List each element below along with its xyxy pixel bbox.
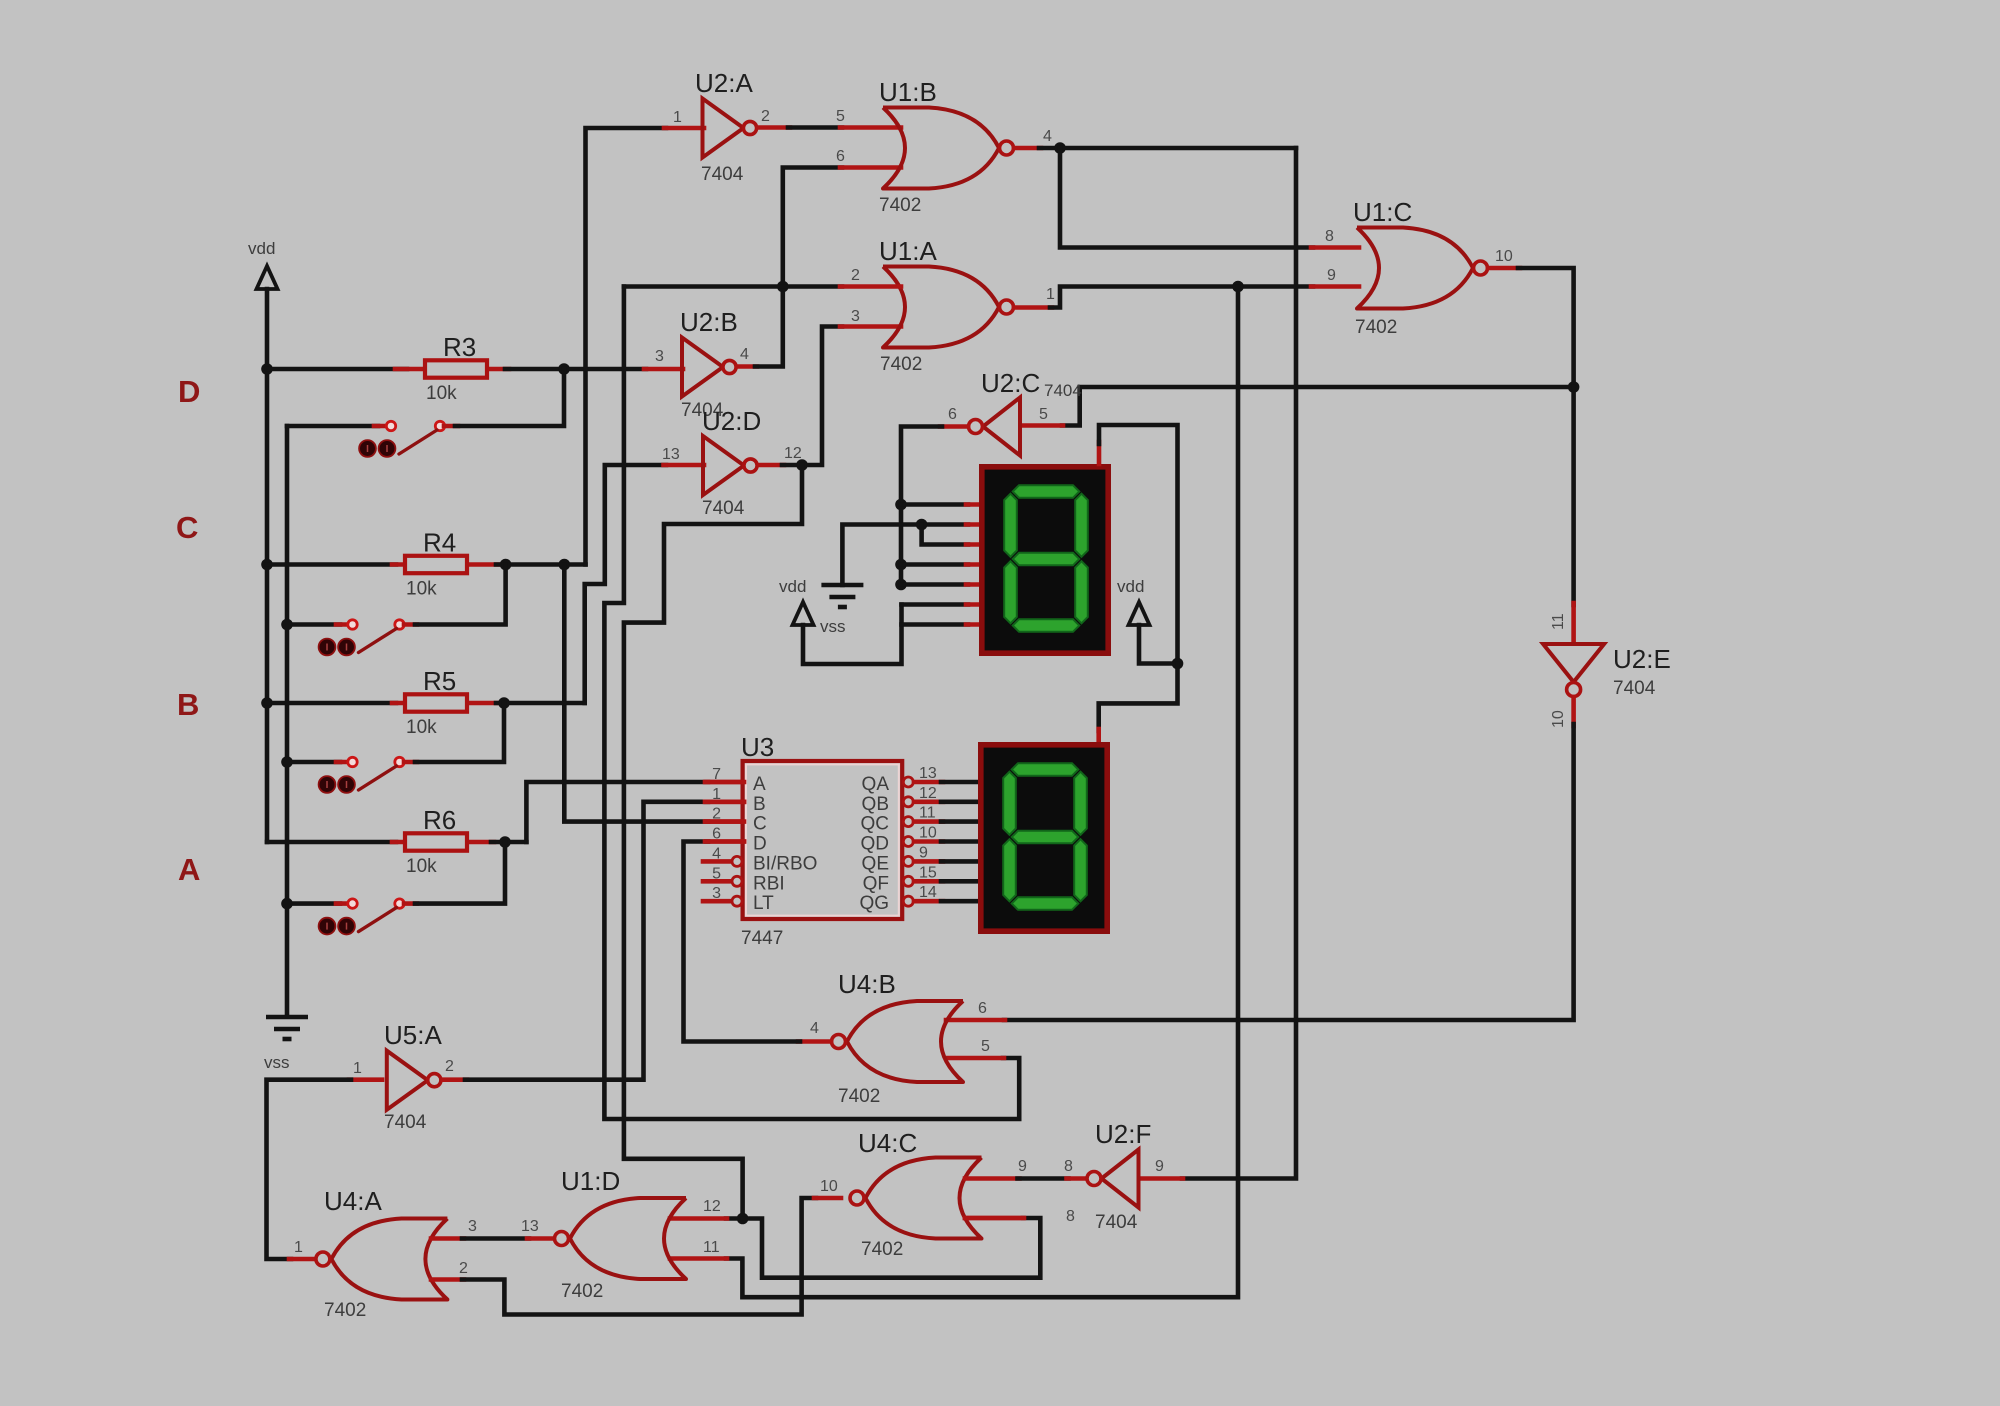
- wire R6 to corner: [491, 840, 526, 845]
- node vdd-B junction: [261, 697, 273, 709]
- wire QC to DS2: [914, 819, 943, 824]
- svg-text:12: 12: [784, 445, 802, 462]
- svg-text:U3: U3: [741, 732, 774, 762]
- svg-text:QB: QB: [862, 794, 889, 815]
- wire R4 to junctions: [496, 562, 586, 567]
- svg-text:8: 8: [1064, 1158, 1073, 1175]
- resistor R4: [392, 562, 405, 567]
- node R6 switch junction: [499, 836, 511, 848]
- svg-text:10: 10: [820, 1178, 838, 1195]
- wire R5 to corner: [496, 701, 585, 706]
- wire U1:C out down to U2:E: [1571, 387, 1576, 605]
- svg-text:U2:F: U2:F: [1095, 1119, 1151, 1149]
- svg-text:5: 5: [1039, 406, 1048, 423]
- svg-text:8: 8: [1066, 1208, 1075, 1225]
- svg-text:U4:A: U4:A: [324, 1186, 382, 1216]
- wire U1:B out right bus: [1060, 146, 1296, 151]
- svg-text:RBI: RBI: [753, 873, 785, 894]
- stub U4:C pin 8: [965, 1216, 1023, 1221]
- node rail-SWC: [281, 619, 293, 631]
- wire U2:B out up to U1:B pin 6: [737, 364, 757, 369]
- wire U2:A out to U1:B pin 5: [758, 125, 790, 130]
- wire U1:B out to U1:C pin 8: [1060, 148, 1313, 248]
- inverter U2:A: [703, 99, 744, 158]
- svg-text:U2:A: U2:A: [695, 68, 753, 98]
- svg-text:QG: QG: [859, 893, 889, 914]
- svg-text:QA: QA: [862, 774, 890, 795]
- wire seg-f row: [902, 602, 969, 607]
- svg-text:7404: 7404: [1613, 678, 1656, 699]
- wire QG to DS2: [914, 899, 943, 904]
- svg-text:13: 13: [662, 446, 680, 463]
- switch SW-B: [287, 760, 340, 765]
- wire switch B up to R5: [415, 703, 504, 762]
- pin 10 QD of U3: [903, 837, 913, 847]
- node U2:D output junction: [796, 459, 808, 471]
- wire vdd to R5: [267, 701, 396, 706]
- svg-text:B: B: [177, 687, 199, 722]
- svg-text:2: 2: [851, 267, 860, 284]
- wire U1:B out down to U2:F pin 9: [1182, 148, 1296, 1179]
- wire U1:A out down to U1:D pin 11: [726, 287, 1238, 1298]
- svg-text:15: 15: [919, 864, 937, 881]
- node U1:A out junction: [1232, 281, 1244, 293]
- pin 6 D of U3: [706, 839, 744, 844]
- wire switch C up to R4: [415, 565, 506, 625]
- wire switch A up to R6: [415, 842, 505, 904]
- pin 4 BI/RBO of U3: [703, 859, 732, 864]
- node R4 column junction: [559, 559, 571, 571]
- svg-text:QD: QD: [861, 834, 890, 855]
- wire U2:D out down-bus to U1:D pin 12: [624, 465, 802, 1219]
- wire U4:C pin 9 to U2:F out: [965, 1176, 1020, 1181]
- svg-text:4: 4: [810, 1020, 819, 1037]
- svg-text:11: 11: [1550, 613, 1567, 630]
- svg-text:12: 12: [703, 1198, 721, 1215]
- svg-text:5: 5: [836, 108, 845, 125]
- pin 5 RBI of U3: [703, 879, 732, 884]
- svg-text:vdd: vdd: [1117, 577, 1144, 596]
- wire seg-a row: [901, 502, 968, 507]
- svg-text:2: 2: [445, 1058, 454, 1075]
- wire U1:C out to U2:C pin 5: [1062, 387, 1574, 426]
- 7-segment display DS1: [982, 467, 1108, 653]
- node U1:D pin12 junction: [737, 1213, 749, 1225]
- svg-text:A: A: [753, 774, 766, 795]
- svg-text:U1:C: U1:C: [1353, 197, 1412, 227]
- svg-text:10: 10: [1550, 710, 1567, 728]
- svg-text:BI/RBO: BI/RBO: [753, 853, 817, 874]
- wire C bit up to U2:A input: [586, 128, 667, 565]
- pin 12 QB of U3: [903, 797, 913, 807]
- svg-text:2: 2: [459, 1260, 468, 1277]
- wire D row to U2:B pin 3: [564, 367, 646, 372]
- pin 11 QC of U3: [903, 817, 913, 827]
- nor gate U1:A: [883, 267, 999, 348]
- wire QD to DS2: [914, 839, 943, 844]
- svg-text:3: 3: [851, 308, 860, 325]
- svg-text:8: 8: [1325, 228, 1334, 245]
- svg-text:2: 2: [761, 108, 770, 125]
- wire vdd to R4: [267, 562, 396, 567]
- wire U4:A pin 2 to U4:C out: [431, 1277, 464, 1282]
- svg-text:D: D: [178, 374, 200, 409]
- node vdd-C junction: [261, 559, 273, 571]
- svg-text:12: 12: [919, 785, 937, 802]
- node U1:C out junction: [1568, 381, 1580, 393]
- pin 7 A of U3: [706, 780, 744, 785]
- switch SW-D: [287, 424, 378, 429]
- svg-text:QE: QE: [862, 853, 889, 874]
- pin 9 QE of U3: [903, 856, 913, 866]
- wire U2:C out to display rows A D E: [940, 424, 968, 429]
- svg-text:9: 9: [1327, 267, 1336, 284]
- svg-text:7402: 7402: [1355, 317, 1397, 338]
- svg-text:13: 13: [919, 765, 937, 782]
- pin 13 QA of U3: [903, 777, 913, 787]
- IC U3 7447 BCD decoder: [743, 761, 903, 919]
- svg-text:6: 6: [948, 406, 957, 423]
- node seg-a junction: [895, 499, 907, 511]
- wire B bit up to U2:D pin 13: [585, 465, 666, 703]
- inverter U2:C: [983, 398, 1020, 456]
- svg-text:3: 3: [468, 1218, 477, 1235]
- wire U1:A pin2 input bus: [624, 284, 842, 289]
- svg-text:D: D: [753, 834, 767, 855]
- svg-text:C: C: [753, 814, 767, 835]
- wire R3 to node: [505, 367, 564, 372]
- wire seg-c tie: [922, 525, 968, 545]
- svg-text:R3: R3: [443, 332, 476, 362]
- svg-text:7: 7: [712, 766, 721, 783]
- node R5 switch junction: [498, 697, 510, 709]
- node rail-SWA: [281, 898, 293, 910]
- svg-text:7402: 7402: [861, 1239, 903, 1260]
- node seg-d junction: [895, 559, 907, 571]
- ground vss (bottom-left): [285, 426, 290, 1015]
- svg-text:U2:D: U2:D: [702, 406, 761, 436]
- svg-text:1: 1: [673, 109, 682, 126]
- svg-text:5: 5: [981, 1038, 990, 1055]
- nor gate U1:D: [570, 1198, 686, 1279]
- node R3 right junction: [558, 363, 570, 375]
- svg-text:9: 9: [1018, 1158, 1027, 1175]
- resistor R3: [395, 367, 425, 372]
- wire vdd node to DS2 common: [1099, 664, 1178, 732]
- svg-text:6: 6: [978, 1000, 987, 1017]
- wire vdd to R6: [267, 840, 396, 845]
- node U2:B out to U1:A pin2 junction: [777, 281, 789, 293]
- svg-text:10k: 10k: [426, 383, 457, 404]
- nor gate U4:A: [331, 1219, 447, 1300]
- wire QB to DS2: [914, 799, 943, 804]
- wire DS1 common anode to vdd: [1097, 442, 1102, 464]
- wire QF to DS2: [914, 879, 943, 884]
- nor gate U4:C: [866, 1158, 982, 1239]
- pin 14 QG of U3: [903, 896, 913, 906]
- pin 3 LT of U3: [703, 899, 732, 904]
- node vdd display junction: [1172, 658, 1184, 670]
- wire vdd arrow to node: [1139, 625, 1175, 664]
- svg-text:4: 4: [740, 346, 749, 363]
- svg-text:7402: 7402: [879, 195, 921, 216]
- pin 1 B of U3: [706, 799, 744, 804]
- 7-segment display DS2: [981, 745, 1107, 931]
- wire vdd rail down left side: [265, 369, 270, 842]
- wire seg-d row: [901, 562, 968, 567]
- svg-text:vdd: vdd: [248, 239, 275, 258]
- resistor R5: [392, 701, 405, 706]
- svg-text:7447: 7447: [741, 928, 783, 949]
- wire U1:C output: [1488, 266, 1520, 271]
- switch SW-C: [287, 622, 340, 627]
- wire U1:A pin2 net down to U4:B pin 5: [604, 287, 1019, 1120]
- wire U1:A output: [1014, 305, 1052, 310]
- svg-text:7402: 7402: [324, 1300, 366, 1321]
- svg-text:U4:C: U4:C: [858, 1128, 917, 1158]
- wire vdd to R3: [267, 367, 407, 372]
- nor gate U4:B: [847, 1001, 963, 1082]
- pin 2 C of U3: [706, 819, 744, 824]
- wire switch D to node: [455, 369, 564, 426]
- svg-text:R5: R5: [423, 666, 456, 696]
- svg-text:10k: 10k: [406, 579, 437, 600]
- svg-text:C: C: [176, 510, 198, 545]
- svg-text:11: 11: [703, 1239, 720, 1256]
- svg-text:9: 9: [1155, 1158, 1164, 1175]
- svg-text:10: 10: [919, 825, 937, 842]
- svg-text:vss: vss: [264, 1053, 290, 1072]
- svg-text:13: 13: [521, 1218, 539, 1235]
- svg-text:1: 1: [353, 1060, 362, 1077]
- svg-text:7404: 7404: [384, 1112, 427, 1133]
- node U1:B out junction: [1054, 142, 1066, 154]
- ground vss (middle): [821, 583, 863, 588]
- svg-text:9: 9: [919, 844, 928, 861]
- svg-text:QC: QC: [861, 814, 890, 835]
- wire A bit up to U3 pin A: [526, 782, 708, 842]
- switch SW-A: [287, 901, 340, 906]
- svg-text:10: 10: [1495, 248, 1513, 265]
- svg-text:10k: 10k: [406, 856, 437, 877]
- nor gate U1:C: [1357, 228, 1473, 309]
- svg-text:U5:A: U5:A: [384, 1020, 442, 1050]
- svg-text:QF: QF: [863, 873, 889, 894]
- svg-text:A: A: [178, 852, 200, 887]
- wire seg-g row: [902, 622, 969, 627]
- svg-text:4: 4: [712, 845, 721, 862]
- node vdd-D junction: [261, 363, 273, 375]
- svg-text:U1:D: U1:D: [561, 1166, 620, 1196]
- svg-text:U1:A: U1:A: [879, 236, 937, 266]
- wire U2:D out to U1:A pin 3: [802, 327, 842, 466]
- wire U2:D out net: [759, 463, 784, 468]
- svg-text:LT: LT: [753, 893, 774, 914]
- svg-text:2: 2: [712, 806, 721, 823]
- inverter U2:F: [1102, 1150, 1139, 1208]
- node seg-b junction: [916, 519, 928, 531]
- wire QA to DS2: [914, 780, 943, 785]
- inverter U2:B: [682, 338, 723, 397]
- svg-text:1: 1: [1046, 286, 1055, 303]
- wire seg-e row: [901, 582, 968, 587]
- svg-text:7402: 7402: [838, 1086, 880, 1107]
- svg-text:6: 6: [836, 148, 845, 165]
- svg-text:7404: 7404: [1044, 381, 1082, 400]
- wire U4:A pin 3 to U1:D pin 13: [431, 1236, 464, 1241]
- node R4 switch junction: [500, 559, 512, 571]
- svg-text:U1:B: U1:B: [879, 77, 937, 107]
- wire U2:E out to U4:B pin 6: [1571, 697, 1576, 726]
- nor gate U1:B: [883, 108, 999, 189]
- inverter U2:E: [1543, 644, 1604, 682]
- svg-text:vdd: vdd: [779, 577, 806, 596]
- wire U1:B output: [1014, 146, 1041, 151]
- svg-text:7404: 7404: [701, 164, 744, 185]
- wire U4:B out to U3 pin D: [798, 1039, 831, 1044]
- wire U5:A input from U4:A out: [349, 1077, 382, 1082]
- inverter U5:A: [387, 1051, 428, 1110]
- svg-text:1: 1: [294, 1239, 303, 1256]
- svg-text:U2:E: U2:E: [1613, 644, 1671, 674]
- node seg-e junction: [895, 579, 907, 591]
- svg-text:4: 4: [1043, 128, 1052, 145]
- svg-text:7404: 7404: [1095, 1212, 1138, 1233]
- svg-text:R4: R4: [423, 528, 456, 558]
- svg-text:7404: 7404: [702, 498, 745, 519]
- svg-text:B: B: [753, 794, 766, 815]
- svg-text:7402: 7402: [880, 354, 922, 375]
- wire vdd stem to D row: [265, 289, 270, 369]
- inverter U2:D: [703, 436, 744, 495]
- svg-text:U2:B: U2:B: [680, 307, 738, 337]
- svg-text:U2:C: U2:C: [981, 368, 1040, 398]
- wire bus to U4:C pin 8: [743, 1218, 1041, 1278]
- svg-text:11: 11: [919, 805, 936, 822]
- wire QE to DS2: [914, 859, 943, 864]
- svg-text:3: 3: [712, 885, 721, 902]
- svg-text:3: 3: [655, 348, 664, 365]
- svg-text:10k: 10k: [406, 717, 437, 738]
- svg-text:U4:B: U4:B: [838, 969, 896, 999]
- pin 15 QF of U3: [903, 876, 913, 886]
- svg-text:vss: vss: [820, 617, 846, 636]
- wire U5:A out to U3 pin B: [443, 1077, 467, 1082]
- svg-text:14: 14: [919, 884, 937, 901]
- wire seg-b row to ground: [842, 525, 968, 586]
- svg-text:7402: 7402: [561, 1281, 603, 1302]
- wire vdd to seg-f seg-g rows: [803, 605, 902, 665]
- svg-text:5: 5: [712, 865, 721, 882]
- node rail-SWB: [281, 756, 293, 768]
- resistor R6: [392, 840, 405, 845]
- wire C bit down to U3 pin C: [564, 565, 708, 822]
- svg-text:R6: R6: [423, 805, 456, 835]
